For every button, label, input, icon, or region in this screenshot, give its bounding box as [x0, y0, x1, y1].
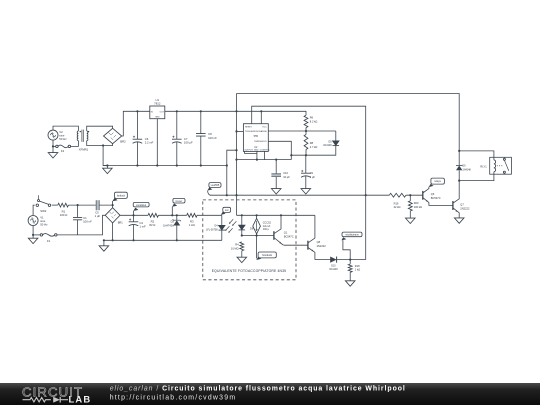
LED emission arrows — [229, 219, 233, 223]
svg-text:RESET: RESET — [245, 127, 253, 129]
voltage regulator U1 7812 — [150, 106, 165, 119]
sensor ground bus — [104, 239, 222, 241]
capacitor C10 — [275, 160, 277, 174]
node D6 top — [241, 214, 243, 216]
wire THRESHOLD — [268, 141, 291, 159]
wire R19 to Q6 base — [406, 194, 423, 196]
wire F1 to BR1 left — [57, 215, 105, 235]
node U1 GND — [156, 164, 158, 166]
ground symbol sensor — [103, 240, 105, 246]
node threshold net — [305, 154, 307, 156]
capacitor C9 — [305, 155, 307, 173]
svg-text:555: 555 — [254, 134, 259, 138]
bridge rectifier BR1 — [105, 208, 120, 223]
current source CCCS2 — [256, 215, 258, 218]
svg-text:GND: GND — [155, 117, 160, 119]
resistor R20 — [408, 201, 412, 211]
capacitor C4 — [133, 215, 135, 222]
svg-text:1 µF: 1 µF — [95, 214, 101, 218]
svg-text:2N2222: 2N2222 — [317, 244, 327, 248]
svg-text:100 Ω: 100 Ω — [60, 213, 68, 217]
svg-text:THRESHOLD: THRESHOLD — [254, 141, 267, 143]
capacitor C7 — [176, 111, 178, 139]
resistor R1 — [58, 203, 69, 207]
svg-text:EQUIVALENTE FOTOACCOPPIATORE 4: EQUIVALENTE FOTOACCOPPIATORE 4N35 — [212, 269, 286, 273]
resistor R2 — [148, 213, 158, 217]
wire Q1 emitter to Q8 base — [284, 244, 308, 246]
svg-text:1 mF: 1 mF — [139, 225, 146, 229]
node D3 bottom — [176, 239, 178, 241]
svg-text:izener: izener — [176, 200, 183, 203]
svg-text:100 µF: 100 µF — [184, 141, 193, 145]
wire R2 to R3 — [158, 214, 186, 216]
svg-text:R4: R4 — [235, 243, 239, 247]
node C7 top — [176, 110, 178, 112]
svg-text:22 kΩ: 22 kΩ — [394, 205, 401, 209]
svg-text:CONTROL: CONTROL — [260, 150, 271, 152]
svg-text:2N2222: 2N2222 — [460, 206, 470, 210]
wire R3 to LED — [197, 214, 222, 216]
wire R1 to C5 — [68, 204, 96, 206]
wire V1 bottom rail with fuse F1 — [32, 226, 34, 235]
svg-text:2.2 mF: 2.2 mF — [145, 141, 154, 145]
switch SW2 — [36, 204, 38, 206]
node C4 bottom — [132, 239, 134, 241]
opto rail wire — [237, 214, 315, 216]
resistor R8 — [304, 135, 308, 150]
svg-text:100 nF: 100 nF — [83, 220, 92, 224]
svg-text:D10: D10 — [331, 265, 336, 268]
wire output bus — [210, 194, 389, 196]
svg-text:fotodiodo: fotodiodo — [262, 254, 273, 257]
capacitor C5 (series) — [96, 200, 100, 210]
wire BR2 + output to regulator rail — [122, 111, 150, 136]
svg-text:XFMR1: XFMR1 — [79, 148, 89, 152]
node relay bottom — [458, 180, 460, 182]
wire BR1 out rail — [120, 214, 148, 216]
wire TRIGGER — [237, 130, 244, 132]
svg-text:10 µF: 10 µF — [283, 175, 290, 179]
net flag relays — [429, 184, 434, 187]
relay RLY1 — [490, 157, 512, 174]
transistor Q8 2N2222 — [307, 241, 309, 250]
svg-text:BR2: BR2 — [120, 140, 126, 144]
ground at V1 — [32, 235, 34, 238]
wire relay coil top — [459, 151, 494, 157]
top frame wire — [237, 94, 460, 151]
node C1 top — [77, 204, 79, 206]
wire U1 GND to ground bus — [156, 119, 158, 166]
node bus left vertical — [226, 194, 228, 196]
svg-text:C10: C10 — [283, 171, 288, 175]
main left vertical net (output frame) — [236, 94, 238, 216]
svg-text:1N4148: 1N4148 — [323, 144, 332, 147]
wire V2 bottom to fuse node — [52, 140, 54, 146]
svg-text:F1: F1 — [47, 239, 51, 243]
svg-text:R8: R8 — [310, 141, 314, 145]
node V2-F2 junction — [52, 145, 54, 147]
node jog — [235, 149, 237, 151]
resistor R4 — [240, 242, 244, 251]
svg-text:LAB: LAB — [69, 393, 92, 404]
node D6 bottom / R4 top — [241, 234, 243, 236]
node CCCS2 bottom — [256, 234, 258, 236]
ground at R4 — [241, 253, 243, 257]
svg-text:C9: C9 — [310, 171, 314, 175]
ground at R18 — [349, 276, 351, 281]
transformer XFMR1 — [77, 131, 78, 141]
node ground bus end — [226, 164, 228, 166]
node C8 top — [200, 110, 202, 112]
svg-text:LFL-00708: LFL-00708 — [206, 228, 218, 231]
wire SW2 to R1 — [52, 204, 58, 206]
svg-text:82 Ω: 82 Ω — [149, 223, 155, 227]
svg-text:GND: GND — [254, 150, 259, 152]
svg-text:iindiouk: iindiouk — [117, 194, 126, 197]
wire C5 to BR1 top — [99, 205, 113, 208]
resistor R6 — [304, 115, 308, 127]
fuse F1 — [40, 234, 42, 236]
wire F2 to primary bottom — [71, 141, 79, 147]
wire secondary bottom — [87, 141, 103, 146]
svg-text:100 kΩ: 100 kΩ — [414, 205, 422, 209]
wire relay coil bottom — [459, 174, 494, 180]
svg-text:elio_carlan / Circuito simulat: elio_carlan / Circuito simulatore flusso… — [110, 386, 406, 393]
svg-text:voutdiouk: voutdiouk — [136, 204, 147, 207]
logo wire with resistor — [23, 398, 51, 402]
svg-text:8.2 kΩ: 8.2 kΩ — [310, 119, 318, 123]
wire OUTPUT GND jog — [245, 151, 257, 153]
wire Q8 emitter to D10 — [315, 259, 331, 261]
capacitor C1 — [77, 205, 79, 217]
photodiode D6 — [241, 215, 243, 225]
transistor Q7 2N2222 — [452, 201, 454, 210]
node rail crossing — [235, 110, 237, 112]
wire jog to vout555 vertical — [227, 150, 237, 195]
svg-text:SW2: SW2 — [40, 209, 47, 213]
node BR1 top / flag connection — [112, 204, 114, 206]
wire secondary top to bridge BR2 — [87, 126, 113, 131]
wire RESET riser to top link — [252, 106, 366, 195]
svg-text:BR1: BR1 — [118, 221, 124, 225]
capacitor C8 — [200, 111, 202, 133]
wire control bus under 555 — [237, 159, 292, 161]
svg-text:http://circuitlab.com/cvdw39m: http://circuitlab.com/cvdw39m — [110, 395, 237, 402]
node R6 bottom — [305, 130, 307, 132]
wire fototrans output up to bus — [365, 195, 367, 259]
svg-text:1 kΩ: 1 kΩ — [189, 223, 195, 227]
svg-text:50 Hz: 50 Hz — [40, 223, 48, 227]
svg-text:D3: D3 — [171, 220, 175, 224]
net flag iindiouk — [112, 201, 114, 205]
footer bar — [0, 383, 540, 405]
node Q1 collector on rail — [280, 214, 282, 216]
logo diode — [53, 397, 60, 403]
node C8 bottom — [200, 164, 202, 166]
svg-text:R19: R19 — [394, 201, 399, 205]
node C7 bottom — [176, 164, 178, 166]
svg-text:Q8: Q8 — [317, 240, 321, 244]
svg-text:F2: F2 — [61, 149, 65, 153]
net flag voutfototrans — [343, 240, 350, 259]
transistor Q6 BC547C — [422, 191, 424, 200]
node CCCS2 top — [256, 214, 258, 216]
node R20 top — [409, 194, 411, 196]
ground bus of power supply — [103, 165, 227, 167]
svg-text:R18: R18 — [355, 264, 360, 268]
resistor R18 — [348, 264, 352, 272]
fuse F2 — [56, 145, 58, 147]
svg-text:50 Hz: 50 Hz — [59, 137, 67, 141]
net flag led — [221, 212, 226, 215]
net flag izener — [171, 207, 173, 216]
svg-text:1N4742A: 1N4742A — [163, 223, 174, 227]
resistor R19 — [389, 193, 406, 197]
node VCC on rail — [260, 110, 262, 112]
wire V2 top to transformer primary — [53, 126, 78, 131]
IC U2 555 timer — [243, 124, 268, 152]
diode D5 1N4148 — [335, 131, 337, 141]
svg-text:7812: 7812 — [154, 102, 161, 106]
net flag voutdiouk — [133, 211, 135, 215]
capacitor C6 — [136, 111, 138, 139]
svg-text:1 kΩ: 1 kΩ — [355, 268, 360, 272]
svg-text:R6: R6 — [310, 116, 314, 120]
svg-text:BC547C: BC547C — [284, 234, 294, 238]
ground at Q7 — [454, 218, 464, 223]
ground at V2 — [52, 146, 54, 152]
dashed box equivalent optocoupler — [203, 200, 296, 280]
svg-text:DISCHARGE: DISCHARGE — [254, 130, 267, 133]
node izener — [171, 214, 173, 216]
node bus to fototrans vertical — [365, 194, 367, 196]
ground at C9 — [301, 189, 311, 194]
svg-text:1 µF: 1 µF — [310, 175, 316, 179]
wire BR2 bottom to junction — [103, 144, 113, 166]
node C6 top — [136, 110, 138, 112]
svg-text:10 MΩ: 10 MΩ — [231, 247, 239, 251]
svg-text:R20: R20 — [414, 201, 419, 205]
svg-text:relays: relays — [434, 180, 441, 183]
node bus to 555 vertical — [235, 194, 237, 196]
bridge rectifier BR2 — [104, 128, 122, 143]
node relay top — [458, 150, 460, 152]
diode D9 freewheel — [458, 151, 460, 165]
transistor Q1 BC547C — [273, 231, 275, 240]
svg-text:100 µ: 100 µ — [263, 228, 270, 231]
ground at R20 — [409, 214, 411, 218]
diode D10 — [330, 257, 336, 263]
net flag vout555 — [209, 183, 221, 188]
svg-text:VCC: VCC — [262, 127, 267, 129]
LED D4 — [221, 215, 223, 225]
node R18 top — [349, 259, 351, 261]
node BR1 bottom — [112, 223, 114, 240]
ground at C10 — [271, 189, 281, 194]
svg-text:1N4148: 1N4148 — [462, 168, 471, 171]
wire F2 to V2 — [53, 145, 56, 147]
resistor R3 — [187, 213, 197, 217]
AC source V1 — [28, 216, 38, 226]
svg-text:RLY1: RLY1 — [480, 165, 487, 169]
svg-text:100 nF: 100 nF — [208, 136, 217, 140]
AC source V2 — [48, 130, 58, 140]
svg-text:BC547C: BC547C — [431, 196, 441, 200]
node trigger junction — [235, 130, 237, 132]
svg-text:vout555: vout555 — [211, 184, 220, 187]
ground symbol power supply — [106, 166, 108, 169]
node BR2 AC bottom — [102, 144, 104, 146]
svg-text:voutfototrans: voutfototrans — [345, 233, 359, 236]
wire DISCHARGE to R6/R8 node and D4 top — [268, 130, 336, 132]
svg-text:Q6: Q6 — [431, 192, 435, 196]
svg-text:2.7 kΩ: 2.7 kΩ — [310, 145, 318, 149]
svg-text:Q7: Q7 — [460, 203, 464, 207]
node C4 / voutdiouk — [132, 214, 134, 216]
wire base node to Q1 — [242, 235, 274, 237]
wire CONTROL stub — [263, 151, 265, 159]
svg-text:Q1: Q1 — [284, 231, 288, 235]
node C6 bottom — [136, 164, 138, 166]
svg-text:OUTPUT: OUTPUT — [244, 150, 253, 152]
wire +12V rail from U1 OUT — [165, 111, 306, 115]
wire V1 top to switch — [33, 205, 35, 215]
svg-text:1N4148: 1N4148 — [329, 268, 338, 271]
net flag fotodiodo — [256, 236, 258, 259]
zener diode D3 — [176, 214, 178, 216]
wire VCC riser — [260, 111, 262, 123]
